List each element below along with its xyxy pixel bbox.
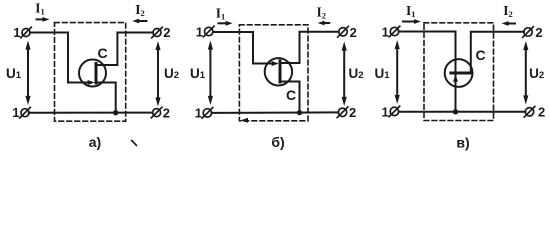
terminal 1 (bottom-left, b) <box>202 108 213 119</box>
svg-text:2: 2 <box>538 105 545 120</box>
current arrow I2 (v) <box>502 21 515 26</box>
voltage arrow U2 (a) <box>155 41 160 107</box>
svg-text:C: C <box>475 47 485 63</box>
wire: terminal1 to source (v) <box>399 31 456 33</box>
wire: terminal1 to gate (a) <box>30 33 88 83</box>
terminal 1 (top-left, b) <box>203 26 214 37</box>
wire: drain up to terminal 2 (v) <box>471 32 524 73</box>
svg-text:а): а) <box>89 134 101 150</box>
terminal 2 (bottom-right, b) <box>337 107 348 118</box>
terminal 1 (bottom-left, v) <box>389 106 400 117</box>
two-port box (dashed) v <box>424 23 494 121</box>
terminal 1 (top-left, a) <box>21 27 32 38</box>
svg-text:2: 2 <box>163 25 170 40</box>
svg-text:1: 1 <box>195 105 202 120</box>
svg-text:2: 2 <box>163 105 170 120</box>
wire: drain to terminal 2 (a) <box>96 33 153 66</box>
transistor VT (b) channel bar <box>279 61 282 82</box>
svg-text:1: 1 <box>196 25 203 40</box>
current arrow I1 (b) <box>218 21 232 26</box>
terminal 2 (bottom-right, v) <box>524 107 535 118</box>
terminal 2 (top-right, v) <box>523 27 534 38</box>
current arrow I2 (a) <box>132 19 146 24</box>
voltage arrow U1 (b) <box>208 41 213 106</box>
junction dot (a) <box>113 110 118 115</box>
svg-text:1: 1 <box>381 104 388 119</box>
stray mark (a) <box>132 141 137 146</box>
terminal 1 (top-left, v) <box>389 26 400 37</box>
svg-text:в): в) <box>456 135 469 151</box>
transistor VT (v) channel bar <box>451 72 471 75</box>
svg-text:1: 1 <box>382 24 389 39</box>
transistor VT (a) channel bar <box>95 64 98 84</box>
current arrow I1 (v) <box>403 19 421 24</box>
wire: terminal1 to gate (b) <box>213 32 272 64</box>
voltage arrow U1 (v) <box>395 40 400 104</box>
two-port box (dashed) b <box>239 25 308 121</box>
transistor VT (b) gate arrowhead <box>272 61 279 66</box>
wire: bottom common (v) <box>399 111 526 113</box>
svg-text:C: C <box>97 45 107 61</box>
transistor VT (b) JFET envelope <box>265 58 292 85</box>
wire: drain down to common (b) <box>280 82 300 111</box>
terminal 2 (bottom-right, a) <box>151 107 162 118</box>
voltage arrow U2 (b) <box>342 42 347 107</box>
current arrow I1 (a) <box>37 17 50 22</box>
wire: source up to terminal 2 (b) <box>280 32 339 63</box>
svg-text:1: 1 <box>13 25 20 40</box>
two-port box (dashed) a <box>55 23 126 122</box>
transistor VT (a) JFET envelope <box>79 60 106 87</box>
wire: source+gate vertical (v) <box>455 32 457 112</box>
svg-text:2: 2 <box>349 105 356 120</box>
wire: bottom common (a) <box>29 112 153 114</box>
svg-text:2: 2 <box>535 25 542 40</box>
transistor VT (a) gate arrowhead <box>88 80 95 85</box>
svg-text:C: C <box>286 87 296 103</box>
voltage arrow U1 (a) <box>25 41 30 106</box>
wire: source down to common (a) <box>96 83 116 111</box>
current arrow I2 (b) <box>318 21 330 26</box>
transistor VT (v) JFET envelope <box>445 59 473 87</box>
junction dot (b) <box>297 110 302 115</box>
svg-text:2: 2 <box>350 25 357 40</box>
terminal 2 (top-right, b) <box>338 27 349 38</box>
transistor VT (v) gate arrowhead <box>453 75 458 82</box>
wire: bottom common (b) <box>212 111 339 114</box>
voltage arrow U2 (v) <box>523 41 528 105</box>
svg-text:1: 1 <box>12 105 19 120</box>
junction dot (v) <box>453 109 458 114</box>
arrow on bottom box edge (b) <box>241 118 249 123</box>
terminal 1 (bottom-left, a) <box>20 107 31 118</box>
svg-text:б): б) <box>271 134 284 150</box>
terminal 2 (top-right, a) <box>152 27 163 38</box>
